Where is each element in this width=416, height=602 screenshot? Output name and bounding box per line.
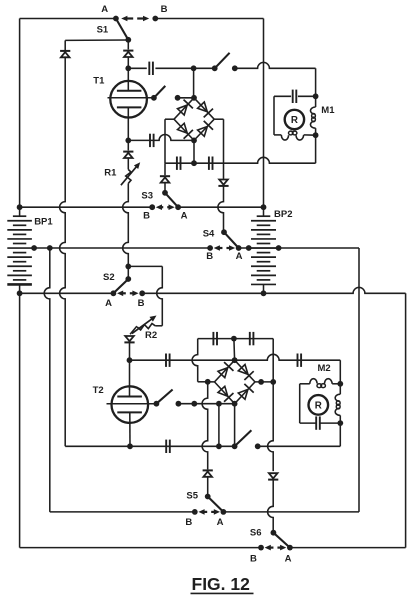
diode D8 (to S6, pointing down) xyxy=(268,473,278,479)
label FIG. 12 xyxy=(191,574,254,594)
T2 lower bar xyxy=(117,411,142,413)
node: S2 feed junction xyxy=(47,245,53,251)
label M2 xyxy=(318,363,331,374)
switch S2 arm (pivot to contact A) xyxy=(113,279,128,293)
node: S5 contact B xyxy=(192,509,198,515)
node: S2 pivot xyxy=(125,276,131,282)
switch arm (T2 grid switch, open) xyxy=(156,390,172,404)
label A (S5) xyxy=(217,517,224,528)
diode DB2a (left->top) xyxy=(218,362,233,377)
wire: bottom frame row left xyxy=(20,547,261,549)
node: T2 grid switch pivot xyxy=(154,401,160,407)
motor M1 rotor circle xyxy=(285,110,304,129)
node: junction BP1 top / wire1 xyxy=(17,204,23,210)
node: S3 contact B xyxy=(149,204,155,210)
node: bridge2 right inner xyxy=(258,379,264,385)
wire 2: S4 contact A to right corner xyxy=(239,247,359,249)
wire: wire2 corner column (hops at wire3 handled on wire3) xyxy=(358,248,360,512)
wire: open contact to bridge1 top xyxy=(178,97,194,99)
wire: T2 top row (hops S6 column) to M2 corner xyxy=(130,354,341,360)
R2 wiper arrow xyxy=(132,316,157,334)
svg-text:A: A xyxy=(285,553,292,564)
wire: diode column upper stub xyxy=(64,40,66,50)
inductor L2 (M1 side coil) xyxy=(310,107,315,128)
node: BP2 tap right xyxy=(276,245,282,251)
svg-text:M2: M2 xyxy=(318,363,331,374)
diode DB2b (top->right) xyxy=(238,365,253,380)
wire: B to right frame xyxy=(155,18,263,20)
wire: S5 row right xyxy=(223,511,359,513)
switch arm (T1 grid switch, open) xyxy=(154,86,165,98)
node: grid row x219 xyxy=(216,401,222,407)
wire: left-vertex column to diode xyxy=(164,163,166,175)
node: T1 plate cap-wire junction xyxy=(125,65,131,71)
svg-text:S2: S2 xyxy=(103,272,115,283)
diode DB1c (left->bottom) xyxy=(178,123,193,138)
node: S1 contact B xyxy=(152,16,158,22)
label A (S6) xyxy=(285,553,292,564)
wire: left frame vertical (BP1 top lead) xyxy=(19,19,21,208)
wire: bridge2 left vertex lead xyxy=(208,381,215,383)
arrow: S3 throw xyxy=(156,204,175,210)
node: T1 plate switch left contact xyxy=(212,65,218,71)
wire: left-vertex column down (hops T1 cathode wire) xyxy=(164,119,166,163)
label T1 xyxy=(93,75,105,86)
capacitor C2 xyxy=(150,134,154,147)
svg-text:S4: S4 xyxy=(203,229,215,240)
T1 grid line (extends to switch) xyxy=(108,97,154,99)
wire: M1 right side upper stub xyxy=(315,96,317,107)
wire: corner down to M2 top xyxy=(339,360,341,384)
diode DB1b (top->right) xyxy=(198,102,213,117)
wire: BP2 top stub xyxy=(263,207,265,216)
label B (S6) xyxy=(250,553,257,564)
wire: bridge2 right vertex lead xyxy=(255,381,273,383)
svg-text:A: A xyxy=(105,298,112,309)
battery BP1 xyxy=(7,216,32,284)
wire: R2 to diode D6 xyxy=(130,326,137,334)
svg-text:B: B xyxy=(161,4,168,15)
arrow: S2 throw xyxy=(117,291,139,297)
wire: M2 bottom edge xyxy=(300,422,341,424)
T2 upper bar xyxy=(117,396,142,398)
node: BP1 tap junction xyxy=(31,245,37,251)
capacitor C6 xyxy=(166,354,170,367)
node: T1 cathode junction xyxy=(125,138,131,144)
wire: D6 to T2 top node xyxy=(129,342,131,360)
switch arm (T2 plate switch, open) xyxy=(235,430,252,446)
node: T1 plate switch right contact xyxy=(232,65,238,71)
motor M2 rotor circle xyxy=(309,395,329,415)
wire: M2 top edge to terminal xyxy=(332,383,340,385)
T2 grid line xyxy=(107,403,157,405)
wire: BP2 bottom stub xyxy=(263,284,265,293)
label T2 xyxy=(93,385,104,396)
switch arm (T1 plate switch, open) xyxy=(215,53,230,69)
svg-text:R2: R2 xyxy=(145,330,157,341)
T1 cathode bar xyxy=(117,106,141,108)
svg-text:B: B xyxy=(143,211,150,222)
wire: M2 right side lower stub xyxy=(339,415,341,423)
switch S1 arm (A to lower contact) xyxy=(116,19,128,40)
node: M1 bottom terminal xyxy=(313,132,319,138)
wire: top-left frame corner to switch S1 contact A xyxy=(20,18,116,20)
node: S6 pivot xyxy=(271,530,277,536)
wire: right-vertex column lower (hops wire1) xyxy=(218,186,224,232)
node: T2 grid switch open contact xyxy=(176,401,182,407)
node: bridge2 left junction xyxy=(205,379,211,385)
wire: T2 bottom row to plate switch xyxy=(130,445,235,447)
node: bridge2 bottom node xyxy=(232,401,238,407)
label A (S3) xyxy=(181,211,188,222)
wire: left diode column down to T2 bottom wire (hops wires 1,2,3) xyxy=(60,57,66,446)
svg-text:A: A xyxy=(236,251,243,262)
node: BP2 top junction xyxy=(261,204,267,210)
wire: left frame bottom column xyxy=(19,293,21,547)
wire: M1 bottom edge to terminal xyxy=(304,134,316,136)
svg-text:B: B xyxy=(185,517,192,528)
switch S3 arm (pivot to contact A) xyxy=(165,193,178,207)
wire: right-vertex column upper (crosses 2-cap wire) xyxy=(223,119,225,179)
wire: M1 left edge xyxy=(273,96,275,135)
node: S3 pivot xyxy=(162,190,168,196)
wire: S2 junction to pivot xyxy=(127,266,129,279)
wire: D5 to R1 xyxy=(127,158,129,170)
node: bridge1 top node xyxy=(191,95,197,101)
svg-text:S3: S3 xyxy=(141,190,153,201)
wire: switch to M1 top (hops BP2 column) xyxy=(235,62,316,68)
diode DB2d (bottom->right) xyxy=(238,384,253,399)
switch S5 arm xyxy=(208,497,224,512)
diode D2 (above T1, pointing up) xyxy=(123,51,133,57)
label B (S3) xyxy=(143,211,150,222)
wire: D8 to S6 pivot (hops S5 row) xyxy=(268,480,274,533)
wire: T1 cathode lead down xyxy=(127,107,129,140)
node: S2 contact B xyxy=(139,290,145,296)
inductor L1 (M1 bottom coil) xyxy=(281,131,303,140)
wire: S6 column (hops T2 bottom row) xyxy=(268,382,274,471)
diode D1 (left column, pointing up) xyxy=(60,51,70,57)
wire 3: BP1 bottom to S2 contact A xyxy=(20,292,114,294)
switch S6 arm xyxy=(273,533,290,548)
wire: filter row corner up to M1 bottom xyxy=(315,135,317,163)
diode D6 (above T2, pointing down) xyxy=(124,336,134,342)
wire: corner up to M2 bottom xyxy=(339,423,341,446)
node: BP2 bottom junction xyxy=(261,290,267,296)
svg-text:B: B xyxy=(250,553,257,564)
svg-text:S6: S6 xyxy=(250,528,262,539)
capacitor C3 xyxy=(177,157,181,170)
capacitor C9 xyxy=(250,332,254,345)
wire: M2 left edge xyxy=(299,384,301,423)
capacitor C10 xyxy=(166,440,170,453)
node: S5 pivot xyxy=(205,494,211,500)
node: M1 top terminal xyxy=(313,93,319,99)
wire: M2 top lead-in xyxy=(300,383,310,385)
wire 2: BP1 mid-tap to S4 contact B xyxy=(32,247,210,249)
node: filter row centre (bottom) xyxy=(231,336,237,342)
wire 1: S3 contact A to BP2 top xyxy=(178,206,263,208)
node: S1 contact A xyxy=(113,16,119,22)
R1 wiper arrow xyxy=(121,162,140,185)
wire: bridge2 top-right arm xyxy=(235,360,255,382)
capacitor C8 xyxy=(213,332,217,345)
label S5 xyxy=(186,490,198,501)
diode D5 (below T1, pointing up) xyxy=(123,152,133,158)
wire 1: BP1 top to S3 contact B xyxy=(20,206,153,208)
battery BP2 xyxy=(251,216,276,284)
node: S4 pivot xyxy=(221,229,227,235)
wire: filter row down to bridge2 top xyxy=(233,339,236,361)
wire: bridge1 right vertex to corner xyxy=(214,118,223,120)
wire: corner down to M1 top xyxy=(315,68,317,96)
wire: S1 lower contact to left diode column xyxy=(65,39,128,41)
svg-text:R1: R1 xyxy=(104,167,117,178)
node: bridge2 right junction xyxy=(270,379,276,385)
svg-text:S5: S5 xyxy=(186,490,198,501)
wire: T2 bottom row left corner xyxy=(65,445,130,447)
wire 3: S2 contact B to right frame (hops col 359) xyxy=(142,287,405,293)
wire: cap-wire down to bridge1 top node xyxy=(193,68,195,98)
wire: S6 column from filter right corner to bridge2 right xyxy=(272,339,274,382)
node: bridge2 top node xyxy=(232,357,238,363)
wire: bridge2 bottom to plate-switch pivot xyxy=(234,404,236,447)
node: M2 bottom terminal xyxy=(337,420,343,426)
wire: bridge1 bottom-right arm xyxy=(194,119,214,140)
wire: filter left column corner to bridge2 left xyxy=(198,381,208,383)
wire: bottom filter row (2 caps) xyxy=(198,338,274,340)
arrow: S1 throw direction xyxy=(121,16,149,22)
svg-text:B: B xyxy=(206,251,213,262)
arrow: S4 throw xyxy=(214,245,236,251)
wire: T1 plate lead xyxy=(127,68,129,90)
svg-text:A: A xyxy=(181,211,188,222)
diode DB1d (bottom->right) xyxy=(198,121,213,136)
wire: filter left column (hops T2 top row) xyxy=(192,339,198,382)
wire: R2 corner lead xyxy=(155,325,162,327)
triode T1 envelope xyxy=(110,81,147,118)
wire: R1 down to S2 junction (hops wires 1,2) xyxy=(123,183,129,266)
svg-text:R: R xyxy=(291,115,298,126)
wire: M1 bottom lead-in xyxy=(274,134,281,136)
node: S3 contact A xyxy=(175,204,181,210)
diode D3 (to S3, pointing up) xyxy=(160,176,170,182)
wire: M2 right side upper stub xyxy=(339,384,341,394)
label S6 xyxy=(250,528,262,539)
capacitor C7 xyxy=(298,354,302,367)
wire: T2 top lead xyxy=(129,360,131,396)
node: grid row mid xyxy=(191,401,197,407)
wire: T1 cathode row with C2 (hops left-vertex column) xyxy=(128,135,194,141)
node: bridge1 top feed xyxy=(191,65,197,71)
node: BP2 tap left xyxy=(246,245,252,251)
label A (S2) xyxy=(105,298,112,309)
svg-text:BP2: BP2 xyxy=(274,209,292,220)
node: S6 contact B xyxy=(258,545,264,551)
T1 plate bar xyxy=(117,90,141,92)
inductor L3 (M2 top coil) xyxy=(310,379,332,388)
capacitor C11 (M2 bottom) xyxy=(316,416,320,429)
wire: bridge1 left vertex to corner xyxy=(165,118,174,120)
inductor L4 (M2 side coil) xyxy=(335,394,340,415)
label B (S2) xyxy=(138,298,145,309)
wire: cathode node to D5 xyxy=(127,140,129,150)
svg-text:BP1: BP1 xyxy=(34,216,53,227)
wire: grid row to bridge2 bottom (hops S5 column) xyxy=(178,403,234,405)
svg-text:A: A xyxy=(101,4,108,15)
wire: diode to S3 pivot xyxy=(164,183,166,193)
svg-text:A: A xyxy=(217,517,224,528)
node: bridge1 bottom node xyxy=(191,138,197,144)
label S1 xyxy=(97,24,109,35)
wire: bridge2 bottom-left arm xyxy=(215,382,235,404)
node: S2 junction upper xyxy=(125,264,131,270)
label R in M2 xyxy=(315,400,322,411)
label S2 xyxy=(103,272,115,283)
node: S4 contact B xyxy=(207,245,213,251)
svg-text:T2: T2 xyxy=(93,385,104,396)
node: T2 top junction xyxy=(127,357,133,363)
wire: S5 column (hops grid row and T2 bottom row) xyxy=(202,382,208,470)
wire: S5 feed column (hops wire3) xyxy=(44,248,50,512)
wire: S5 row left xyxy=(50,511,195,513)
wire: R2 column down (hops wire3) xyxy=(157,266,163,325)
node: S4 contact A xyxy=(236,245,242,251)
node: S2 contact A xyxy=(111,290,117,296)
wire: BP1 bottom stub xyxy=(19,284,21,293)
label B (S1 right contact) xyxy=(161,4,168,15)
wire: S2 junction to R2 corner xyxy=(128,265,162,267)
wire: bridge1 bottom to filter row xyxy=(193,140,195,163)
switch S4 arm (pivot to contact A) xyxy=(224,232,239,248)
arrow: S5 throw xyxy=(198,509,220,515)
capacitor C1 xyxy=(149,62,153,75)
wire: M1 right side lower stub xyxy=(315,128,317,135)
wire: M1 top edge xyxy=(274,95,316,97)
wire: bridge1 top-right arm xyxy=(194,98,214,119)
node: M2 top terminal xyxy=(337,381,343,387)
wire: bridge1 top-left arm xyxy=(174,98,194,119)
label A (S4) xyxy=(236,251,243,262)
svg-text:R: R xyxy=(315,400,322,411)
node: filter row centre xyxy=(191,160,197,166)
label B (S5) xyxy=(185,517,192,528)
wire: DC filter row (2 caps) to M1 bottom (crosses S4 column, hops BP2 column) xyxy=(165,157,316,163)
wire: D7 to S5 pivot xyxy=(207,477,209,497)
triode T2 envelope xyxy=(112,386,149,423)
svg-text:FIG. 12: FIG. 12 xyxy=(192,574,251,594)
label B (S4) xyxy=(206,251,213,262)
node: T2 plate switch contact xyxy=(255,443,261,449)
wire: T2 bottom lead xyxy=(129,412,131,446)
node: T1 grid switch open contact xyxy=(175,95,181,101)
wire: bridge2 bottom-right arm xyxy=(235,382,255,404)
wire: bridge-top node to switch contact xyxy=(194,67,215,69)
label BP1 xyxy=(34,216,53,227)
node: T2 plate switch pivot xyxy=(232,443,238,449)
node: S5 contact A xyxy=(221,509,227,515)
capacitor C4 xyxy=(209,157,213,170)
node: T1 grid switch pivot xyxy=(151,95,157,101)
diode D7 (to S5, pointing up) xyxy=(203,470,213,476)
label S4 xyxy=(203,229,215,240)
node: BP1 bottom junction xyxy=(17,290,23,296)
label R in M1 xyxy=(291,115,298,126)
node: T2 bottom junction xyxy=(127,443,133,449)
wire: right outer frame column xyxy=(405,293,407,547)
label A (S1 left contact) xyxy=(101,4,108,15)
label S3 xyxy=(141,190,153,201)
svg-text:S1: S1 xyxy=(97,24,109,35)
wire: x219 link xyxy=(218,404,220,447)
wire: C1 to bridge-top node xyxy=(155,67,193,69)
label M1 xyxy=(321,105,335,116)
label R2 xyxy=(145,330,157,341)
svg-text:T1: T1 xyxy=(93,75,105,86)
wire: bridge1 bottom-left arm xyxy=(174,119,194,140)
svg-text:M1: M1 xyxy=(321,105,335,116)
wire: BP2 column from switch B down to BP2 top xyxy=(263,19,265,208)
wire: T1 plate row left segment xyxy=(128,67,147,69)
resistor R2 zigzag xyxy=(137,324,155,330)
node: S6 contact A xyxy=(287,545,293,551)
diode DB2c (left->bottom) xyxy=(218,386,233,401)
wire: bottom frame row right xyxy=(290,547,406,549)
svg-text:B: B xyxy=(138,298,145,309)
diode D4 (to S4, pointing down) xyxy=(218,180,228,186)
wire: S1 contact to diode D2 xyxy=(127,40,129,50)
wire: diode D2 to cap-wire node xyxy=(127,57,129,69)
diode DB1a (left->top) xyxy=(178,100,193,115)
resistor R1 zigzag xyxy=(126,170,131,184)
node: x219 bottom xyxy=(216,443,222,449)
wire: BP1 top stub xyxy=(19,207,21,216)
label BP2 xyxy=(274,209,292,220)
arrow: S6 throw xyxy=(265,545,287,551)
capacitor C5 (M1 top) xyxy=(293,90,297,103)
label R1 xyxy=(104,167,117,178)
node: S1 lower contact xyxy=(125,37,131,43)
wire: bridge2 top-left arm xyxy=(215,360,235,382)
wire: T2 plate switch contact to M2 corner xyxy=(258,445,341,447)
